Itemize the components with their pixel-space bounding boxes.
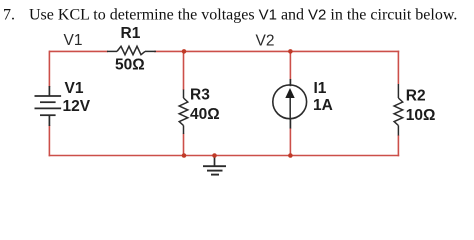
- wire R3 branch lower: [183, 134, 185, 156]
- svg-text:12V: 12V: [63, 98, 91, 115]
- junction bottom I1: [288, 153, 293, 158]
- wire top node V1-V2 span: [184, 50, 290, 52]
- svg-text:7.Use KCL to determine the vol: 7.Use KCL to determine the voltages V1 a…: [3, 7, 457, 24]
- svg-text:1A: 1A: [313, 97, 333, 114]
- junction bottom ground: [212, 153, 217, 158]
- resistor R2: [394, 84, 403, 136]
- resistor R3: [179, 90, 188, 135]
- ground: [203, 156, 226, 175]
- wire bottom right segment: [290, 155, 399, 157]
- junction top R3 node: [182, 49, 187, 54]
- wire right vertical lower: [397, 135, 399, 156]
- svg-text:R2: R2: [406, 87, 426, 104]
- wire top-middle segment: [154, 50, 184, 52]
- arrowhead of I1: [285, 88, 294, 98]
- wire right vertical upper: [397, 51, 399, 84]
- junction bottom R3: [182, 153, 187, 158]
- wire I1 branch upper: [289, 51, 291, 79]
- svg-text:V2: V2: [256, 32, 275, 49]
- svg-text:I1: I1: [314, 80, 327, 97]
- current source I1: [273, 79, 307, 129]
- wire bottom middle segment: [184, 155, 290, 157]
- svg-text:40Ω: 40Ω: [190, 106, 220, 123]
- wire left vertical upper: [48, 51, 50, 87]
- wire top-right segment: [290, 50, 399, 52]
- wire bottom left segment: [49, 155, 184, 157]
- svg-text:R3: R3: [190, 86, 210, 103]
- wire R3 branch upper: [183, 51, 185, 90]
- svg-text:V1: V1: [64, 32, 83, 49]
- battery V1: [35, 86, 62, 126]
- svg-text:50Ω: 50Ω: [115, 57, 145, 74]
- resistor R1: [107, 46, 156, 54]
- junction top I1 node: [288, 49, 293, 54]
- wire left vertical lower: [48, 125, 50, 156]
- svg-text:R1: R1: [121, 25, 141, 42]
- svg-text:10Ω: 10Ω: [406, 107, 436, 124]
- svg-text:V1: V1: [65, 80, 84, 97]
- wire top-left segment: [49, 50, 108, 52]
- wire I1 branch lower: [289, 128, 291, 156]
